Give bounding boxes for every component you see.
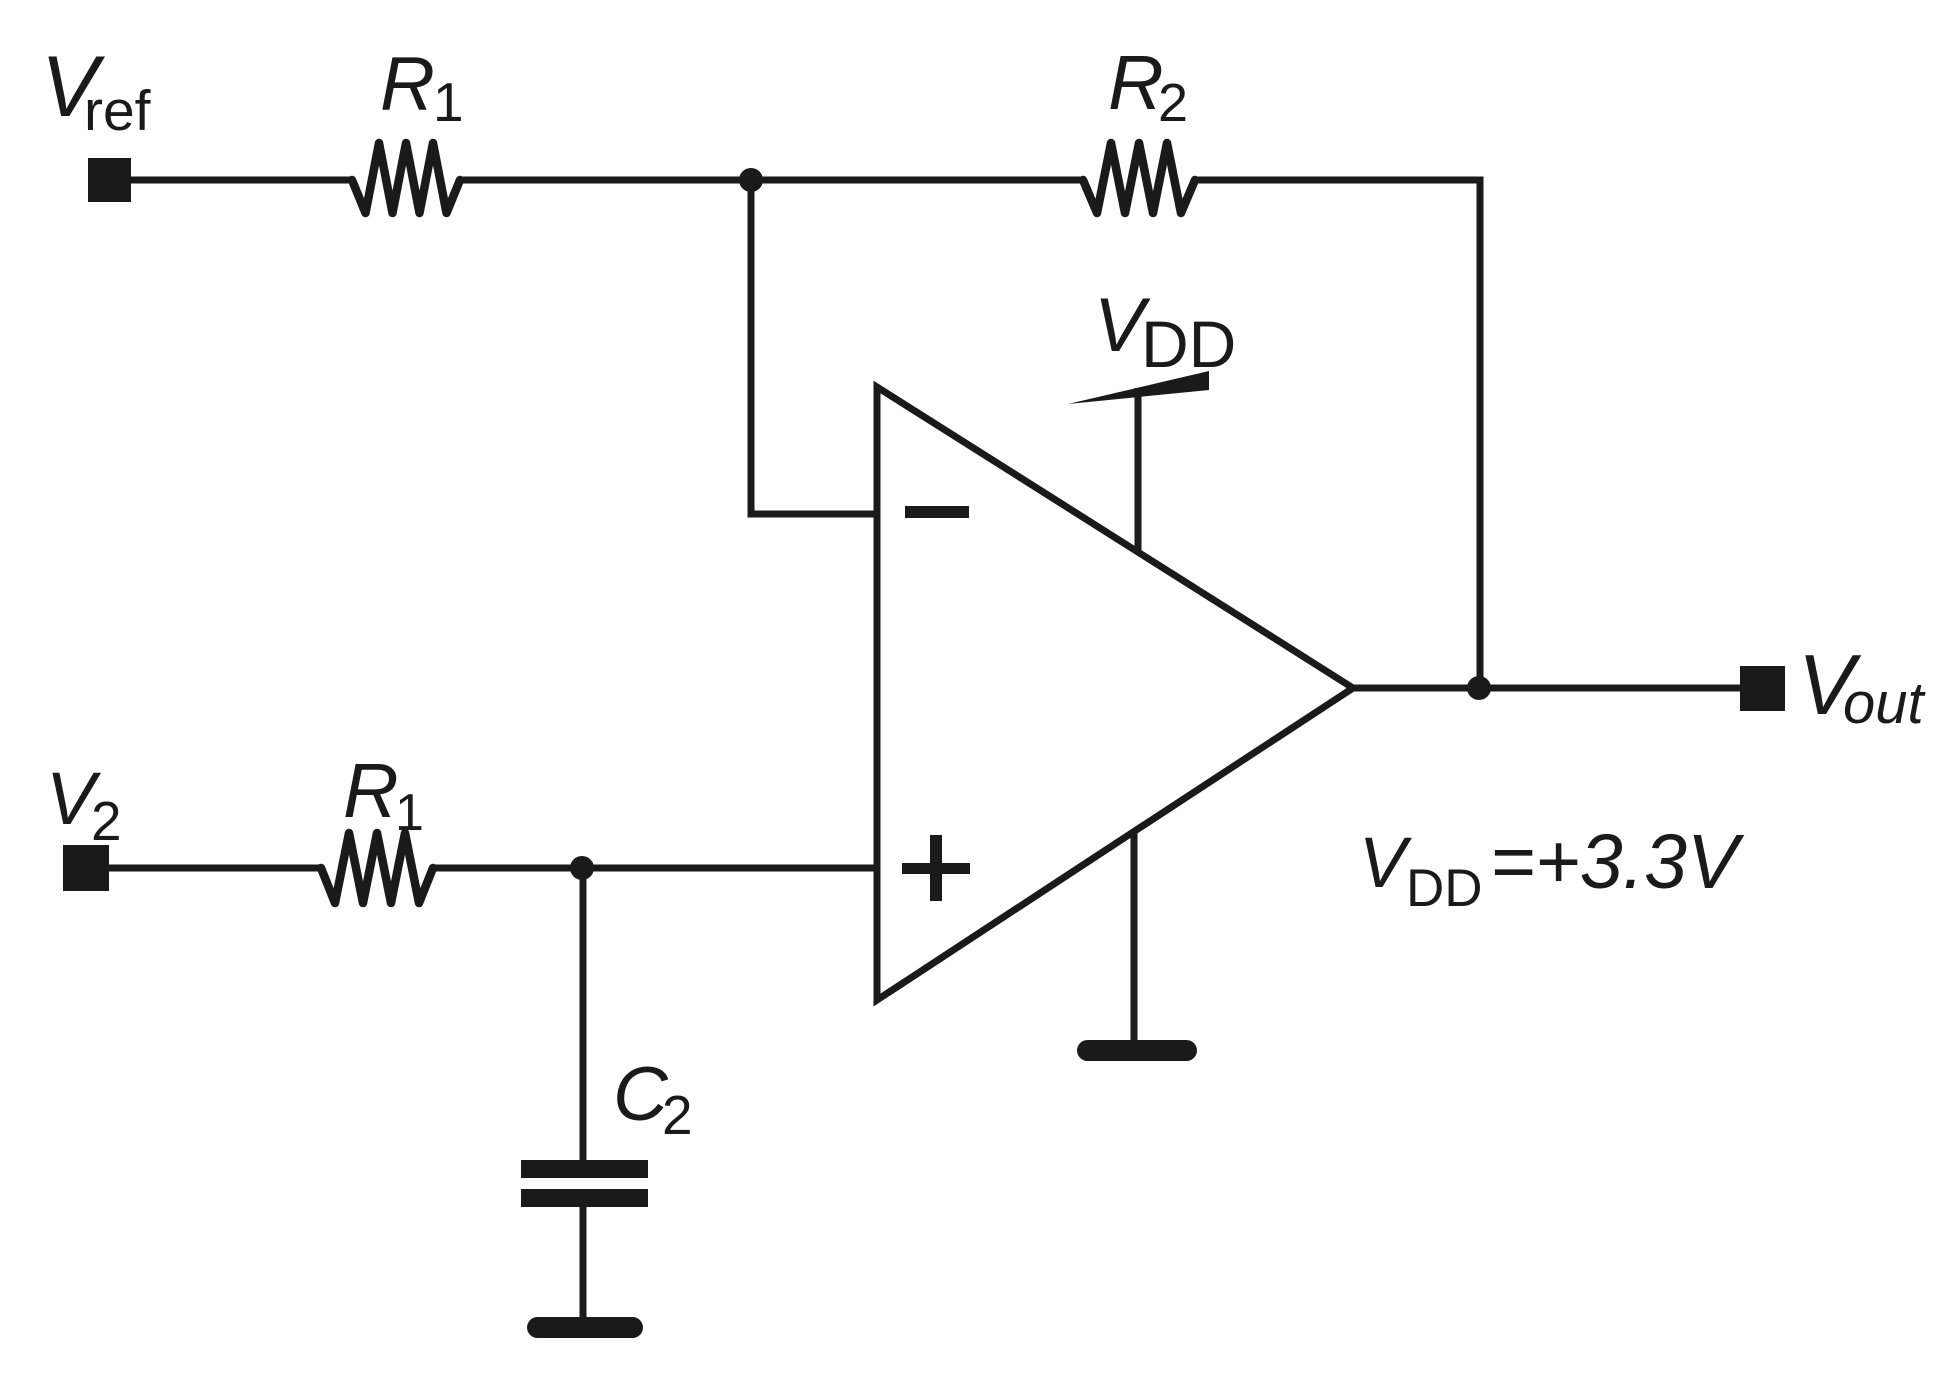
- svg-text:C: C: [613, 1052, 669, 1137]
- wire node A down to inverting input: [751, 180, 879, 514]
- wire C2 to ground: [580, 1205, 587, 1320]
- resistor R1 (top): [352, 143, 460, 213]
- label Vref: [41, 39, 151, 143]
- capacitor C2: [521, 1160, 648, 1207]
- svg-text:DD: DD: [1406, 859, 1483, 918]
- terminal V2: [63, 845, 109, 891]
- svg-text:1: 1: [395, 784, 424, 842]
- wire op-amp output to Vout: [1353, 685, 1742, 692]
- svg-text:1: 1: [433, 71, 464, 133]
- ground (C2): [527, 1317, 643, 1338]
- terminal Vout: [1740, 666, 1785, 711]
- resistor R1 (bottom): [321, 833, 433, 903]
- svg-text:R: R: [343, 748, 399, 834]
- svg-text:2: 2: [662, 1084, 693, 1146]
- svg-text:V: V: [1359, 824, 1412, 903]
- label C2: [613, 1052, 693, 1146]
- wire Vref to R1: [129, 177, 354, 184]
- label VDD (top): [1094, 283, 1236, 381]
- label V2: [46, 757, 122, 852]
- node A junction: [739, 168, 763, 192]
- power flag VDD: [1068, 371, 1209, 404]
- non-inverting input plus sign: [902, 835, 970, 901]
- inverting input minus sign: [905, 506, 969, 518]
- ground (op-amp): [1077, 1040, 1197, 1061]
- wire op-amp bottom to ground: [1131, 831, 1138, 1042]
- wire R2 to output node (L-shape): [1193, 180, 1480, 688]
- wire node A to R2: [751, 177, 1085, 184]
- label R2: [1108, 40, 1188, 133]
- svg-text:out: out: [1843, 671, 1927, 736]
- label R1 (top): [380, 42, 464, 133]
- wire VDD flag to op-amp top: [1135, 388, 1142, 552]
- label VDD = +3.3V: [1359, 819, 1745, 918]
- wire R1 to node A: [458, 177, 751, 184]
- svg-text:R: R: [380, 42, 435, 127]
- svg-text:2: 2: [91, 790, 122, 852]
- wire node C down to C2: [580, 868, 587, 1162]
- wire V2 to R1 (bottom): [107, 865, 323, 872]
- svg-text:=+3.3V: =+3.3V: [1490, 819, 1745, 905]
- node B junction (output): [1467, 676, 1491, 700]
- terminal Vref: [88, 158, 131, 202]
- wire R1 (bottom) to non-inverting input: [431, 865, 877, 872]
- node C junction: [570, 856, 594, 880]
- svg-text:DD: DD: [1141, 307, 1236, 381]
- svg-text:ref: ref: [84, 79, 151, 143]
- svg-text:2: 2: [1158, 73, 1188, 133]
- label Vout: [1798, 638, 1927, 736]
- label R1 (bottom): [343, 748, 424, 842]
- op-amp U1: [877, 387, 1353, 1000]
- svg-text:R: R: [1108, 40, 1164, 126]
- resistor R2: [1083, 143, 1195, 213]
